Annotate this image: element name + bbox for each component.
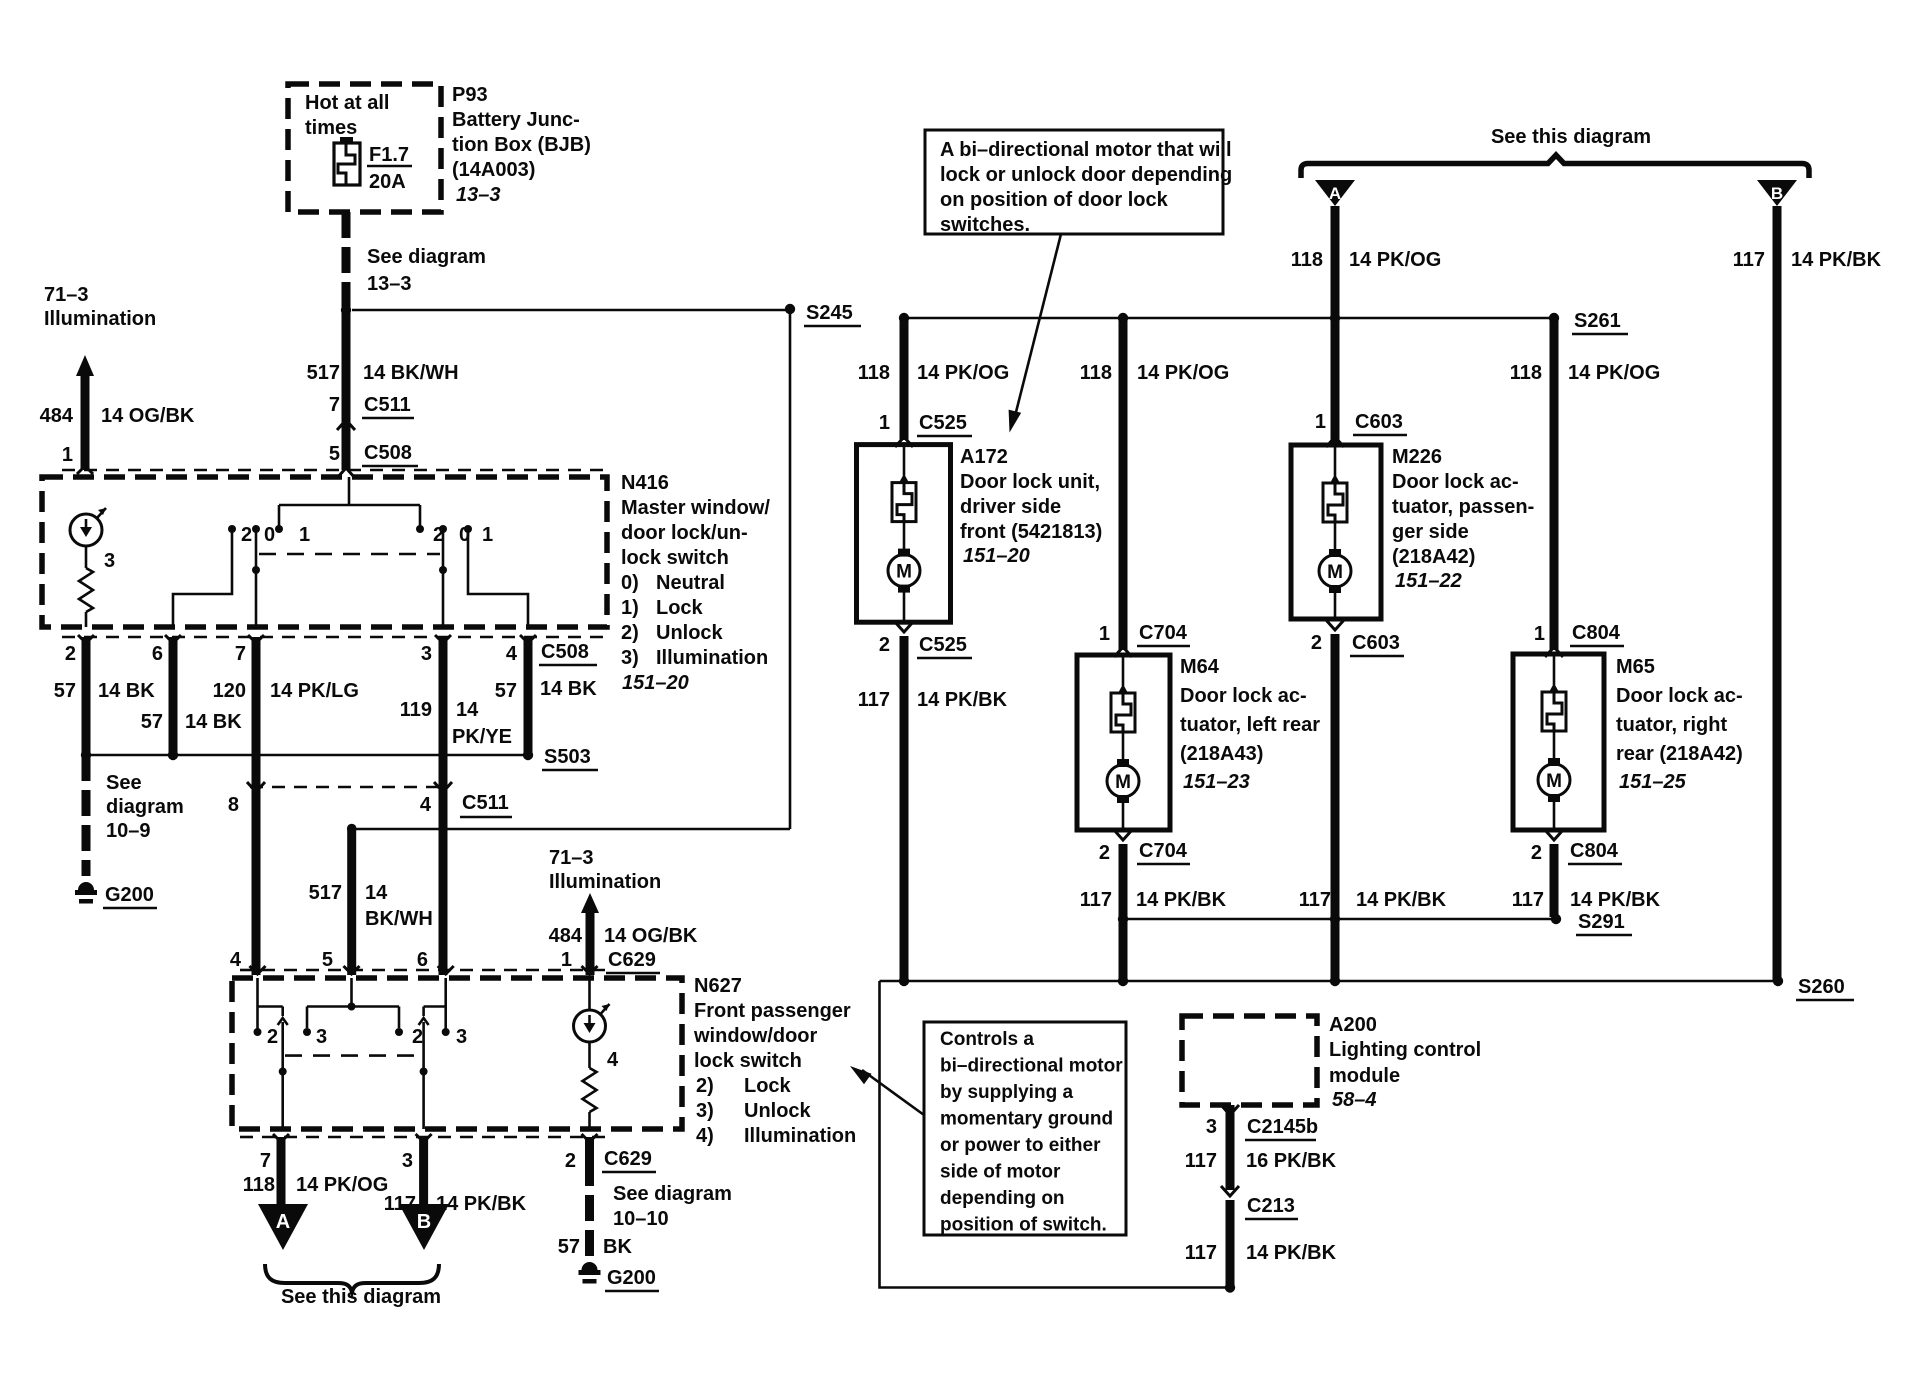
svg-text:(218A42): (218A42) — [1392, 546, 1475, 568]
switch wiper left to pin 7 — [278, 1018, 288, 1129]
svg-text:14 PK/BK: 14 PK/BK — [1246, 1242, 1337, 1264]
svg-text:S261: S261 — [1574, 310, 1621, 332]
label M226 title — [1392, 446, 1534, 592]
connector C525 pin 1 — [879, 412, 972, 447]
svg-text:C508: C508 — [541, 641, 589, 663]
switch N416 box — [42, 477, 607, 627]
svg-text:2): 2) — [621, 622, 639, 644]
svg-text:0): 0) — [621, 572, 639, 594]
arrow from callout to A172 — [1009, 234, 1061, 433]
brace see this diagram — [265, 1264, 441, 1308]
svg-text:2: 2 — [879, 634, 890, 656]
svg-text:13–3: 13–3 — [456, 184, 501, 206]
svg-text:119: 119 — [400, 699, 432, 721]
note controls motor callout — [924, 1022, 1126, 1236]
wire 57 14 BK pin 4 — [495, 637, 597, 755]
switch contacts right 2 3 — [412, 1026, 467, 1048]
svg-text:13–3: 13–3 — [367, 273, 412, 295]
svg-text:C804: C804 — [1572, 622, 1621, 644]
wire 118 14 PK/OG to A172 — [858, 318, 1010, 440]
wire pin 4 to wiper and contact 2 — [258, 978, 283, 1030]
svg-text:(218A43): (218A43) — [1180, 743, 1263, 765]
svg-text:6: 6 — [417, 949, 428, 971]
connector C629 N627 top edge — [230, 949, 660, 974]
bracket over A and B arrows — [1301, 155, 1809, 178]
svg-text:Door lock ac-: Door lock ac- — [1180, 685, 1307, 707]
svg-text:tion Box (BJB): tion Box (BJB) — [452, 134, 591, 156]
switch wiper left to pin 7 — [252, 529, 260, 627]
svg-text:57: 57 — [558, 1236, 580, 1258]
lock mechanism symbol M65 — [1542, 656, 1566, 761]
connector C508 N416 top edge — [62, 466, 606, 474]
svg-text:517: 517 — [309, 882, 342, 904]
connector C511 pin 7 — [329, 394, 414, 430]
svg-text:Lock: Lock — [744, 1075, 792, 1097]
svg-text:BK: BK — [603, 1236, 632, 1258]
door lock unit M65 box — [1513, 654, 1604, 830]
switch contacts right 2 0 1 — [433, 524, 493, 546]
svg-text:117: 117 — [1512, 889, 1544, 911]
wire S245 to 517 branch — [356, 309, 790, 829]
svg-text:rear (218A42): rear (218A42) — [1616, 743, 1743, 765]
svg-text:151–20: 151–20 — [622, 672, 689, 694]
node arrow A (incoming) — [1315, 180, 1355, 206]
svg-text:ger side: ger side — [1392, 521, 1469, 543]
wire 117 14 PK/BK from M64 — [1080, 844, 1227, 981]
svg-text:C511: C511 — [364, 394, 411, 416]
svg-text:S291: S291 — [1578, 911, 1625, 933]
wire S260 ground return — [880, 981, 1236, 1293]
svg-text:14 BK: 14 BK — [185, 711, 242, 733]
wire fuse to S245 (dashed thick) — [346, 212, 486, 307]
svg-text:3: 3 — [316, 1026, 327, 1048]
svg-text:4: 4 — [420, 794, 432, 816]
node S261 bus — [899, 310, 1628, 334]
svg-text:Neutral: Neutral — [656, 572, 725, 594]
wire 117 14 PK/BK from M65 to S291 — [1512, 844, 1661, 917]
svg-text:lock switch: lock switch — [694, 1050, 802, 1072]
svg-text:tuator, left rear: tuator, left rear — [1180, 714, 1320, 736]
svg-text:See this diagram: See this diagram — [1491, 126, 1651, 148]
motor M M226 — [1319, 549, 1351, 617]
wire 117 14 PK/BK from arrow B — [1733, 206, 1882, 981]
svg-text:14 PK/OG: 14 PK/OG — [1137, 362, 1229, 384]
connector C508 pin 5 — [329, 442, 418, 478]
svg-text:3: 3 — [456, 1026, 467, 1048]
svg-text:117: 117 — [1733, 249, 1765, 271]
svg-text:Illumination: Illumination — [44, 308, 156, 330]
wire contact to pin 4 — [468, 529, 528, 627]
wire 118 14 PK/OG to M65 — [1510, 318, 1661, 650]
switch contacts left 2 0 1 — [228, 524, 310, 546]
wire 57 14 BK pin 2 — [54, 637, 155, 755]
svg-text:14 PK/BK: 14 PK/BK — [917, 689, 1008, 711]
label M65 title — [1616, 656, 1743, 793]
node S245 — [341, 302, 861, 326]
svg-text:14 PK/BK: 14 PK/BK — [436, 1193, 527, 1215]
wire 118 14 PK/OG to arrow A — [243, 1137, 389, 1206]
svg-text:117: 117 — [858, 689, 890, 711]
label P93 title — [452, 84, 591, 206]
svg-text:Battery Junc-: Battery Junc- — [452, 109, 580, 131]
wire 117 14 PK/BK from A172 to S260 — [858, 636, 1008, 981]
svg-text:bi–directional motor: bi–directional motor — [940, 1056, 1123, 1077]
svg-text:Door lock unit,: Door lock unit, — [960, 471, 1100, 493]
svg-text:10–10: 10–10 — [613, 1208, 669, 1230]
svg-text:71–3: 71–3 — [44, 284, 89, 306]
svg-text:or power to either: or power to either — [940, 1135, 1101, 1156]
svg-text:3: 3 — [1206, 1116, 1217, 1138]
svg-text:57: 57 — [141, 711, 163, 733]
svg-text:G200: G200 — [607, 1267, 656, 1289]
svg-text:2: 2 — [267, 1026, 278, 1048]
svg-text:C213: C213 — [1247, 1195, 1295, 1217]
lock mechanism symbol A172 — [892, 447, 916, 552]
svg-text:Illumination: Illumination — [744, 1125, 856, 1147]
svg-text:C603: C603 — [1355, 411, 1403, 433]
svg-text:3: 3 — [104, 550, 115, 572]
module A200 box (dashed) — [1182, 1016, 1317, 1105]
ground G200 right — [579, 1262, 660, 1291]
svg-text:diagram: diagram — [106, 796, 184, 818]
svg-text:M: M — [1327, 562, 1343, 583]
svg-text:(14A003): (14A003) — [452, 159, 535, 181]
svg-text:Lighting control: Lighting control — [1329, 1039, 1481, 1061]
svg-text:117: 117 — [1185, 1242, 1217, 1264]
svg-text:117: 117 — [1080, 889, 1112, 911]
svg-text:M226: M226 — [1392, 446, 1442, 468]
svg-text:14 PK/BK: 14 PK/BK — [1356, 889, 1447, 911]
svg-text:14 BK: 14 BK — [98, 680, 155, 702]
svg-text:S260: S260 — [1798, 976, 1845, 998]
svg-text:2: 2 — [1531, 842, 1542, 864]
svg-text:1): 1) — [621, 597, 639, 619]
svg-text:517: 517 — [307, 362, 340, 384]
svg-text:B: B — [1771, 184, 1783, 203]
connector C603 pin 2 — [1311, 620, 1404, 656]
connector C2145b pin 3 — [1206, 1105, 1318, 1190]
connector C525 pin 2 — [879, 622, 972, 658]
svg-text:C804: C804 — [1570, 840, 1619, 862]
wire 57 BK to ground + note See diagram 10-10 — [558, 1137, 732, 1258]
svg-text:N416: N416 — [621, 472, 669, 494]
svg-text:C525: C525 — [919, 412, 967, 434]
svg-text:Unlock: Unlock — [744, 1100, 812, 1122]
svg-text:5: 5 — [329, 443, 340, 465]
wire 118 14 PK/OG to M226 — [1331, 318, 1340, 440]
svg-text:14: 14 — [456, 699, 479, 721]
svg-text:depending on: depending on — [940, 1188, 1065, 1209]
svg-text:N627: N627 — [694, 975, 742, 997]
lock mechanism symbol M64 — [1111, 657, 1135, 762]
svg-text:momentary ground: momentary ground — [940, 1109, 1113, 1130]
svg-text:3): 3) — [621, 647, 639, 669]
svg-text:2: 2 — [65, 643, 76, 665]
connector C804 pin 2 — [1531, 830, 1622, 864]
svg-text:See: See — [106, 772, 142, 794]
svg-text:C629: C629 — [604, 1148, 652, 1170]
svg-text:side of motor: side of motor — [940, 1162, 1061, 1183]
svg-text:P93: P93 — [452, 84, 488, 106]
svg-text:57: 57 — [54, 680, 76, 702]
svg-text:151–25: 151–25 — [1619, 771, 1687, 793]
node arrow B (off-page) — [399, 1204, 449, 1250]
lamp N627 illumination — [574, 978, 620, 1071]
svg-text:1: 1 — [1315, 411, 1326, 433]
svg-text:Illumination: Illumination — [549, 871, 661, 893]
wire 117 14 PK/BK from M226 — [1299, 634, 1447, 981]
svg-text:3): 3) — [696, 1100, 714, 1122]
svg-text:120: 120 — [213, 680, 246, 702]
svg-text:S245: S245 — [806, 302, 853, 324]
svg-text:118: 118 — [858, 362, 890, 384]
svg-text:484: 484 — [40, 405, 74, 427]
wire 119 14 PK/YE pin 3 — [400, 637, 512, 975]
svg-text:2: 2 — [1099, 842, 1110, 864]
label A200 title — [1329, 1014, 1481, 1111]
svg-text:lock or unlock door depending: lock or unlock door depending — [940, 164, 1232, 186]
svg-text:118: 118 — [1291, 249, 1323, 271]
svg-text:S503: S503 — [544, 746, 591, 768]
svg-text:M: M — [896, 562, 912, 583]
svg-text:151–22: 151–22 — [1395, 570, 1462, 592]
switch wiper right to pin 3 — [439, 529, 447, 627]
node S291 — [1118, 911, 1632, 935]
switch contacts left 2 3 — [254, 1026, 328, 1048]
connector C508 N416 bottom edge — [62, 635, 606, 665]
svg-text:A: A — [1329, 184, 1341, 203]
label See this diagram (top right) — [1491, 126, 1651, 148]
svg-text:Unlock: Unlock — [656, 622, 724, 644]
svg-text:door lock/un-: door lock/un- — [621, 522, 748, 544]
svg-text:on position of door lock: on position of door lock — [940, 189, 1169, 211]
svg-text:14 PK/OG: 14 PK/OG — [1568, 362, 1660, 384]
wire 57 14 BK pin 6 — [141, 637, 242, 755]
svg-text:151–23: 151–23 — [1183, 771, 1250, 793]
svg-text:117: 117 — [1185, 1150, 1217, 1172]
svg-text:14 OG/BK: 14 OG/BK — [604, 925, 698, 947]
svg-text:8: 8 — [228, 794, 239, 816]
svg-text:C525: C525 — [919, 634, 967, 656]
svg-text:Controls a: Controls a — [940, 1029, 1034, 1050]
svg-text:M: M — [1115, 772, 1131, 793]
mechanical link N627 — [285, 1054, 421, 1057]
svg-text:C704: C704 — [1139, 622, 1188, 644]
svg-text:window/door: window/door — [693, 1025, 818, 1047]
svg-text:See this diagram: See this diagram — [281, 1286, 441, 1308]
label M64 title — [1180, 656, 1320, 793]
node S503 — [81, 746, 598, 770]
svg-text:2: 2 — [1311, 632, 1322, 654]
svg-text:14 PK/OG: 14 PK/OG — [917, 362, 1009, 384]
wire 117 16 PK/BK — [1185, 1150, 1337, 1172]
wire 117 14 PK/BK to ground return — [1185, 1200, 1337, 1288]
svg-text:C511: C511 — [462, 792, 509, 814]
svg-text:B: B — [417, 1211, 431, 1233]
node S260 — [880, 976, 1855, 1000]
fuse F1.7 20A — [334, 137, 412, 193]
label N416 title — [621, 472, 770, 694]
svg-text:118: 118 — [1510, 362, 1542, 384]
svg-text:4: 4 — [607, 1049, 619, 1071]
svg-text:14 PK/LG: 14 PK/LG — [270, 680, 359, 702]
svg-text:14 PK/BK: 14 PK/BK — [1791, 249, 1882, 271]
connector C511 in-line pins 8 and 4 — [228, 782, 512, 817]
svg-text:16 PK/BK: 16 PK/BK — [1246, 1150, 1337, 1172]
motor M M64 — [1107, 759, 1139, 828]
svg-text:1: 1 — [62, 444, 73, 466]
svg-text:7: 7 — [235, 643, 246, 665]
svg-text:118: 118 — [1080, 362, 1112, 384]
svg-text:4: 4 — [506, 643, 518, 665]
svg-text:Hot at all: Hot at all — [305, 92, 389, 114]
svg-text:C629: C629 — [608, 949, 656, 971]
svg-text:M64: M64 — [1180, 656, 1220, 678]
connector C629 N627 bottom edge — [240, 1134, 656, 1172]
svg-text:G200: G200 — [105, 884, 154, 906]
motor M M65 — [1538, 758, 1570, 828]
connector C804 pin 1 — [1534, 622, 1624, 657]
svg-text:Front passenger: Front passenger — [694, 1000, 851, 1022]
svg-text:switches.: switches. — [940, 214, 1030, 236]
svg-text:4): 4) — [696, 1125, 714, 1147]
svg-text:1: 1 — [879, 412, 890, 434]
wire 517 14 BK/WH — [307, 310, 459, 470]
label A172 title — [960, 446, 1102, 567]
svg-text:6: 6 — [152, 643, 163, 665]
svg-text:lock switch: lock switch — [621, 547, 729, 569]
svg-text:times: times — [305, 117, 357, 139]
door lock unit M64 box — [1077, 655, 1170, 830]
svg-text:driver side: driver side — [960, 496, 1061, 518]
svg-text:117: 117 — [1299, 889, 1331, 911]
wire switch feed from C508-5 — [275, 477, 424, 533]
node arrow B (incoming) — [1757, 180, 1797, 206]
lamp N416 illumination — [70, 508, 115, 572]
svg-text:Lock: Lock — [656, 597, 704, 619]
svg-text:71–3: 71–3 — [549, 847, 594, 869]
door lock unit M226 box — [1291, 445, 1381, 619]
mechanical link N416 — [259, 553, 440, 556]
svg-text:A bi–directional motor that wi: A bi–directional motor that will — [940, 139, 1232, 161]
wire pin 5 feed to contacts — [307, 978, 403, 1036]
wire 118 14 PK/OG to M64 — [1080, 318, 1230, 650]
svg-text:1: 1 — [482, 524, 493, 546]
svg-text:See diagram: See diagram — [613, 1183, 732, 1205]
svg-text:3: 3 — [421, 643, 432, 665]
wire contact to pin 6 — [173, 529, 232, 627]
svg-text:by supplying a: by supplying a — [940, 1082, 1073, 1103]
svg-text:Illumination: Illumination — [656, 647, 768, 669]
svg-text:Master window/: Master window/ — [621, 497, 770, 519]
label N627 title — [693, 975, 856, 1147]
svg-text:2: 2 — [412, 1026, 423, 1048]
svg-text:C603: C603 — [1352, 632, 1400, 654]
door lock unit A172 box — [857, 445, 951, 623]
svg-text:position of switch.: position of switch. — [940, 1215, 1107, 1236]
note bi-directional motor callout — [925, 130, 1232, 236]
svg-text:118: 118 — [243, 1174, 275, 1196]
svg-text:14: 14 — [365, 882, 388, 904]
svg-text:2): 2) — [696, 1075, 714, 1097]
svg-text:Door lock ac-: Door lock ac- — [1392, 471, 1519, 493]
motor M A172 — [888, 549, 920, 621]
wire 117 14 PK/BK to arrow B — [384, 1137, 527, 1215]
svg-text:7: 7 — [260, 1150, 271, 1172]
svg-text:151–20: 151–20 — [963, 545, 1030, 567]
svg-text:M65: M65 — [1616, 656, 1655, 678]
wire 118 14 PK/OG from arrow A — [1291, 206, 1442, 443]
wire 120 14 PK/LG pin 7 — [213, 637, 359, 975]
resistor N416 lamp — [79, 546, 93, 627]
svg-text:F1.7: F1.7 — [369, 144, 409, 166]
svg-text:7: 7 — [329, 394, 340, 416]
svg-text:C508: C508 — [364, 442, 412, 464]
svg-text:A172: A172 — [960, 446, 1008, 468]
svg-text:1: 1 — [1099, 623, 1110, 645]
svg-text:C2145b: C2145b — [1247, 1116, 1318, 1138]
svg-text:484: 484 — [549, 925, 583, 947]
svg-text:4: 4 — [230, 949, 242, 971]
svg-text:M: M — [1546, 771, 1562, 792]
arrow from callout to N627 — [850, 1066, 924, 1115]
node arrow A (off-page) — [258, 1204, 308, 1250]
ground G200 left — [75, 882, 157, 908]
svg-text:57: 57 — [495, 680, 517, 702]
resistor N627 lamp — [583, 1042, 597, 1129]
switch wiper right to pin 3 — [419, 1018, 429, 1129]
connector C704 pin 2 — [1099, 830, 1190, 864]
svg-text:PK/YE: PK/YE — [452, 726, 512, 748]
svg-text:tuator, right: tuator, right — [1616, 714, 1727, 736]
connector C704 pin 1 — [1099, 622, 1190, 657]
svg-text:0: 0 — [264, 524, 275, 546]
svg-text:A200: A200 — [1329, 1014, 1377, 1036]
svg-text:tuator, passen-: tuator, passen- — [1392, 496, 1534, 518]
svg-text:10–9: 10–9 — [106, 820, 151, 842]
connector C213 — [1221, 1186, 1298, 1219]
svg-text:1: 1 — [561, 949, 572, 971]
svg-text:20A: 20A — [369, 171, 406, 193]
svg-text:14 BK/WH: 14 BK/WH — [363, 362, 459, 384]
svg-text:module: module — [1329, 1065, 1400, 1087]
svg-text:A: A — [276, 1211, 290, 1233]
svg-text:14 BK: 14 BK — [540, 678, 597, 700]
svg-text:58–4: 58–4 — [1332, 1089, 1377, 1111]
svg-text:1: 1 — [299, 524, 310, 546]
svg-text:See diagram: See diagram — [367, 246, 486, 268]
svg-text:front (5421813): front (5421813) — [960, 521, 1102, 543]
connector C603 pin 1 — [1315, 411, 1407, 447]
lock mechanism symbol M226 — [1323, 447, 1347, 552]
svg-text:C704: C704 — [1139, 840, 1188, 862]
switch N627 box — [232, 978, 682, 1129]
wire 517 14 BK/WH to N627 — [309, 824, 433, 975]
svg-text:14 PK/OG: 14 PK/OG — [1349, 249, 1441, 271]
svg-text:2: 2 — [241, 524, 252, 546]
node 71-3 Illumination arrow (N627 feed) — [549, 847, 698, 975]
svg-text:5: 5 — [322, 949, 333, 971]
svg-text:14 PK/BK: 14 PK/BK — [1136, 889, 1227, 911]
wire to ground dashed + note See diagram 10-9 — [86, 755, 184, 876]
svg-text:14 OG/BK: 14 OG/BK — [101, 405, 195, 427]
svg-text:14 PK/BK: 14 PK/BK — [1570, 889, 1661, 911]
svg-text:3: 3 — [402, 1150, 413, 1172]
svg-text:14 PK/OG: 14 PK/OG — [296, 1174, 388, 1196]
box P93 Battery Junction Box (dashed) — [288, 84, 441, 212]
wire pin 6 to wiper and contact 3 — [424, 978, 450, 1036]
svg-text:1: 1 — [1534, 623, 1545, 645]
